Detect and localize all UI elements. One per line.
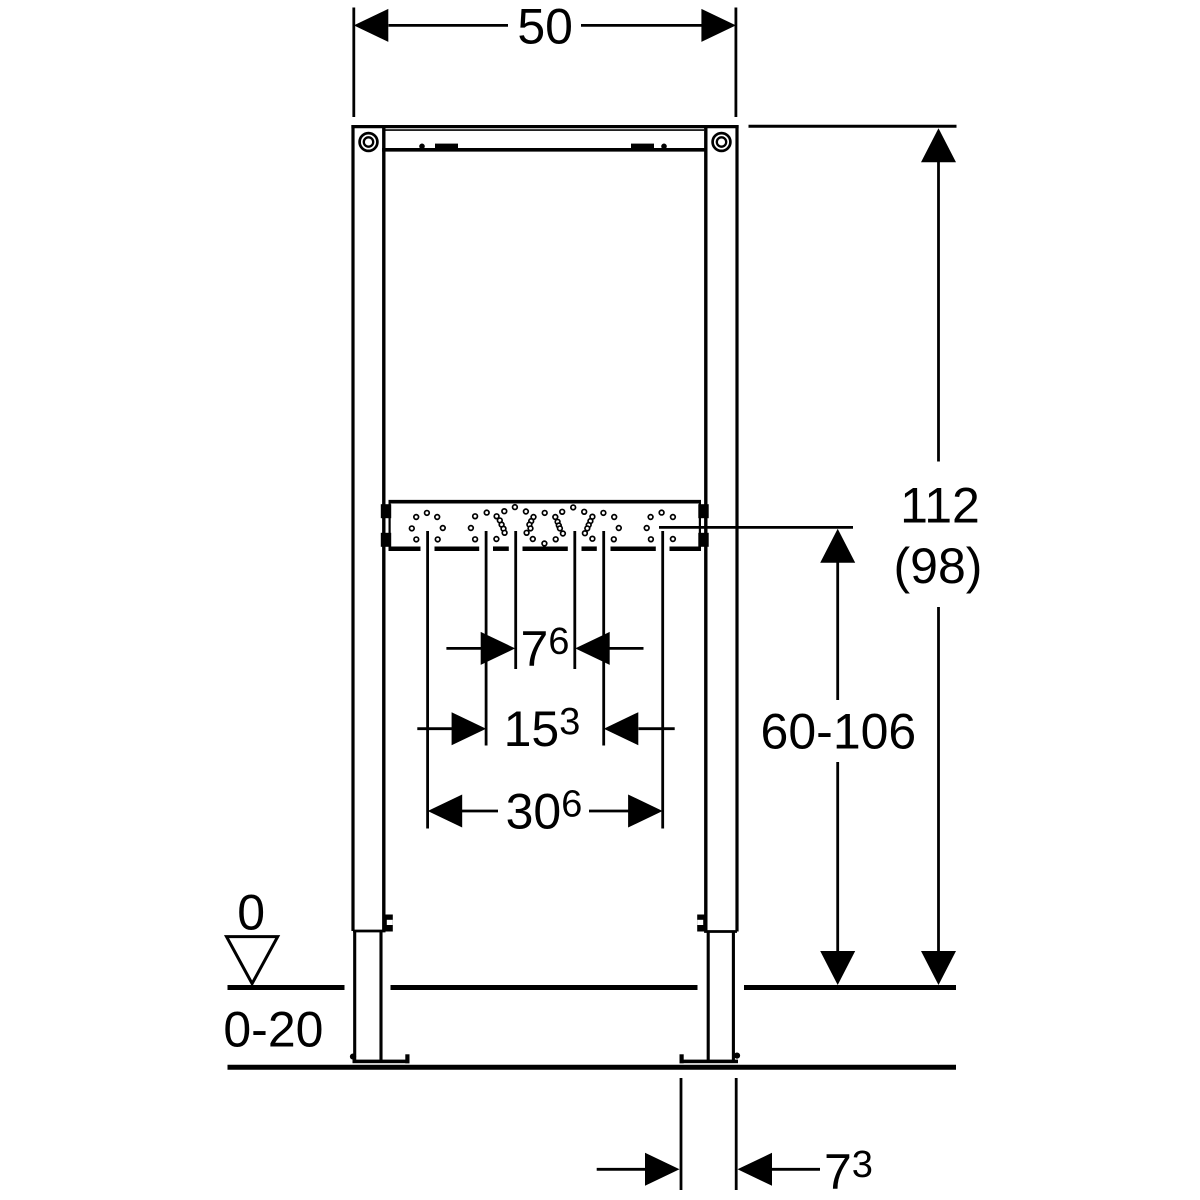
dim 60-106 line lower segment (836, 762, 839, 952)
dim 30.6 left arrow (428, 795, 463, 828)
right foot plate (680, 1060, 739, 1064)
top rail inner top line (386, 129, 705, 131)
dim 50 left arrow (354, 9, 389, 42)
svg-text:50: 50 (517, 0, 573, 54)
extension line F x=662 (661, 531, 664, 829)
svg-text:15: 15 (504, 701, 560, 757)
dim 15.3 left arrow (452, 712, 487, 745)
dim 15.3 right arrow (604, 712, 639, 745)
dim 112 line lower segment (937, 607, 940, 952)
plate left edge (389, 501, 391, 549)
dim 60-106 top arrow (820, 529, 855, 563)
top rail bottom edge (382, 148, 707, 152)
right foot tube outer line (732, 932, 735, 1062)
left foot tube inner line (379, 931, 382, 1061)
dim 30.6 right arrow (628, 795, 663, 828)
dim 60-106 bottom arrow (820, 951, 855, 985)
plate bracket left bottom (381, 533, 391, 547)
right leg junction (704, 930, 737, 933)
plate bracket right top (698, 504, 708, 518)
svg-text:7: 7 (824, 1144, 852, 1200)
dim 7.6 left leader (446, 647, 481, 650)
dim 7.3 left arrow (645, 1153, 680, 1186)
dim 7.6 right arrow (575, 632, 610, 665)
svg-text:112: 112 (900, 478, 980, 534)
dim 15.3 left leader (417, 727, 452, 730)
dim 112 top arrow (921, 128, 956, 162)
plate bottom edge (dashed by extension lines) (389, 546, 421, 551)
svg-text:30: 30 (506, 784, 562, 840)
dim 7.3 right arrow (738, 1153, 773, 1186)
dim 50 right extension line (735, 8, 738, 118)
zero level line (upper ground line) (228, 985, 345, 990)
floor line (lower ground line) (228, 1065, 957, 1070)
left leg junction (353, 930, 386, 933)
dim 7.6 left arrow (481, 632, 516, 665)
plate bracket left top (381, 504, 391, 518)
frame right column outer edge (735, 125, 738, 932)
frame right column inner edge (704, 128, 707, 932)
dim 7.3 right extension line (735, 1078, 738, 1190)
dim 7.3 right leader (771, 1168, 820, 1171)
svg-text:0: 0 (237, 884, 265, 940)
rail fastener dot right (661, 144, 667, 150)
extension line B x=486 (485, 531, 488, 746)
plate right edge (699, 501, 701, 549)
rail fastener clip right (631, 144, 654, 149)
dim 30.6 line right segment (589, 810, 629, 813)
dim 112 bottom arrow (921, 951, 956, 985)
datum triangle 0 (227, 937, 278, 984)
extension line D x=574 (573, 531, 576, 669)
extension line E x=603 (602, 531, 605, 746)
dim 7.3 left leader (597, 1168, 646, 1171)
left leg clamp (384, 915, 393, 932)
frame left column inner edge (382, 128, 385, 931)
svg-text:(98): (98) (894, 538, 983, 594)
dim 112 line upper segment (937, 160, 940, 462)
left foot plate (353, 1060, 410, 1064)
dim 50 line right segment (581, 24, 702, 27)
dim 60-106 line upper segment (836, 561, 839, 700)
dim 50 left extension line (352, 8, 355, 118)
dim 60-106 leader from plate (659, 526, 853, 529)
right foot tube inner line (707, 932, 710, 1062)
svg-text:60-106: 60-106 (761, 704, 917, 760)
frame top rail outer edge (351, 125, 738, 128)
plate screw holes (409, 505, 675, 546)
plate top edge (389, 500, 702, 504)
right leg clamp (697, 915, 706, 932)
plate bracket right bottom (698, 533, 708, 547)
dim 50 right arrow (701, 9, 736, 42)
dim 112 top extension line (749, 125, 957, 128)
frame left column outer edge (351, 125, 354, 931)
extension line C x=515 (514, 531, 517, 669)
svg-text:0-20: 0-20 (223, 1002, 323, 1058)
dim 50 line left segment (389, 24, 509, 27)
dim 30.6 line left segment (462, 810, 499, 813)
left foot tube outer line (353, 931, 356, 1061)
corner screw right (713, 133, 731, 151)
dim 15.3 right leader (639, 727, 675, 730)
corner screw left (360, 133, 378, 151)
svg-text:7: 7 (521, 621, 549, 677)
rail fastener clip left (435, 144, 458, 149)
dim 7.6 right leader (609, 647, 644, 650)
extension line A x=427 (426, 531, 429, 829)
rail fastener dot left (419, 144, 425, 150)
dim 7.3 left extension line (680, 1078, 683, 1190)
